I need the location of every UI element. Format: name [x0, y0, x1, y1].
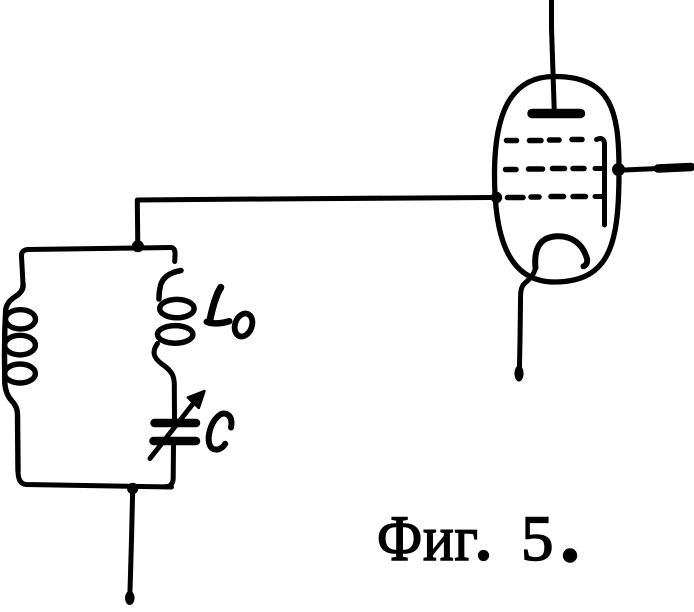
vacuum tube V1 envelope — [495, 77, 620, 283]
node tank bottom (dot) — [127, 483, 138, 494]
grid row 1 (dashed) — [507, 140, 583, 141]
label C — [209, 414, 232, 450]
caption period 2 — [563, 548, 577, 562]
wire grid link vertical — [135, 201, 141, 246]
wire below C1 — [165, 445, 174, 487]
grid row 2 (dashed) — [506, 169, 585, 170]
wire tank bottom rail — [18, 470, 172, 487]
wire bottom lead down — [130, 489, 133, 594]
wire tank top rail — [21, 248, 171, 285]
wire anode right — [624, 169, 659, 171]
caption Фиг. 5. — [377, 507, 479, 572]
inductor L1 antenna coil — [5, 284, 36, 471]
cathode lead end blob — [514, 366, 523, 382]
anode side rod — [597, 139, 605, 225]
cathode lead — [519, 267, 535, 375]
rod tick row3 — [595, 194, 604, 199]
bottom lead end blob — [125, 591, 135, 605]
wire L0 top jog — [172, 248, 176, 262]
cathode filament arch — [535, 236, 587, 268]
capacitor C1 plates — [155, 419, 197, 428]
rod tick row2 — [595, 166, 604, 171]
inductor L0 — [154, 271, 194, 419]
node tank top (dot) — [132, 240, 144, 252]
anode plate bar — [532, 109, 581, 119]
wire grid horizontal — [137, 198, 492, 201]
capacitor arrow shaft — [150, 403, 194, 459]
wire anode top lead — [552, 0, 555, 112]
caption period 1 — [478, 550, 489, 561]
node anode (dot) — [612, 163, 625, 176]
node grid (dot) — [491, 192, 502, 203]
grid row 3 (dashed) — [508, 197, 586, 198]
label L0 — [207, 287, 256, 339]
capacitor arrow head — [188, 391, 205, 408]
